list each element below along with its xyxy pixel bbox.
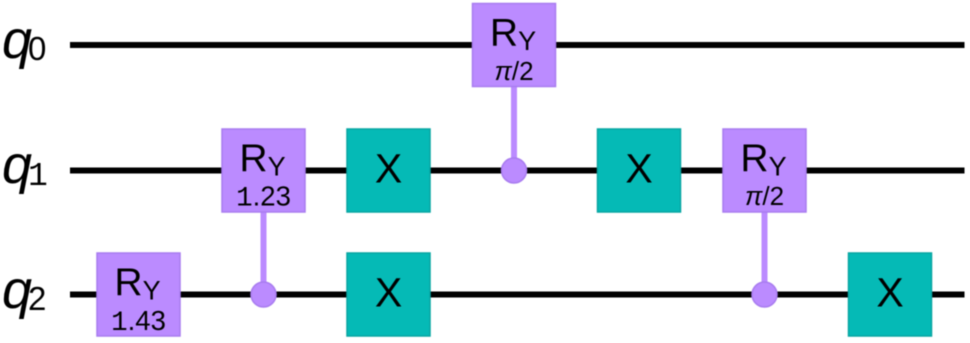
svg-text:X: X — [625, 146, 652, 192]
svg-text:X: X — [375, 270, 402, 316]
svg-text:1.23: 1.23 — [236, 181, 291, 215]
svg-text:1.43: 1.43 — [111, 305, 166, 339]
svg-text:π/2: π/2 — [494, 56, 533, 86]
svg-text:X: X — [375, 146, 402, 192]
svg-text:π/2: π/2 — [745, 181, 784, 211]
svg-text:X: X — [876, 270, 903, 316]
